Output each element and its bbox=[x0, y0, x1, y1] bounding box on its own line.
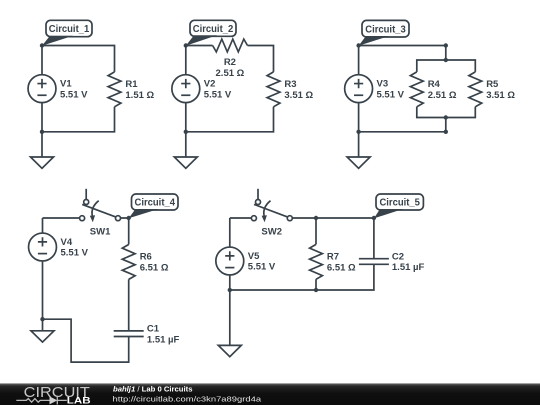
svg-text:C2: C2 bbox=[392, 251, 404, 262]
svg-text:Circuit_4: Circuit_4 bbox=[135, 198, 176, 209]
svg-text:V1: V1 bbox=[60, 79, 72, 90]
svg-text:http://circuitlab.com/c3kn7a89: http://circuitlab.com/c3kn7a89grd4a bbox=[113, 394, 262, 403]
svg-text:R1: R1 bbox=[125, 79, 138, 90]
svg-text:5.51 V: 5.51 V bbox=[377, 89, 405, 100]
svg-text:C1: C1 bbox=[147, 324, 160, 335]
svg-text:5.51 V: 5.51 V bbox=[60, 89, 88, 100]
svg-text:6.51 Ω: 6.51 Ω bbox=[140, 263, 169, 274]
svg-text:5.51 V: 5.51 V bbox=[204, 89, 232, 100]
svg-text:R7: R7 bbox=[327, 252, 339, 263]
svg-text:Circuit_1: Circuit_1 bbox=[49, 24, 90, 35]
svg-text:3.51 Ω: 3.51 Ω bbox=[284, 90, 313, 101]
svg-text:R5: R5 bbox=[486, 79, 499, 90]
svg-text:R4: R4 bbox=[428, 79, 441, 90]
svg-text:SW2: SW2 bbox=[261, 227, 282, 238]
svg-text:V5: V5 bbox=[248, 251, 260, 262]
svg-text:2.51 Ω: 2.51 Ω bbox=[428, 90, 457, 101]
svg-text:SW1: SW1 bbox=[90, 227, 111, 238]
svg-text:V3: V3 bbox=[377, 79, 389, 90]
svg-text:R3: R3 bbox=[284, 79, 296, 90]
svg-text:Circuit_5: Circuit_5 bbox=[379, 198, 420, 209]
svg-text:V4: V4 bbox=[61, 237, 73, 248]
svg-text:R2: R2 bbox=[224, 57, 236, 68]
svg-text:bahlj1 / Lab 0 Circuits: bahlj1 / Lab 0 Circuits bbox=[113, 384, 192, 393]
svg-text:5.51 V: 5.51 V bbox=[248, 262, 276, 273]
svg-text:1.51 Ω: 1.51 Ω bbox=[125, 90, 154, 101]
svg-text:5.51 V: 5.51 V bbox=[61, 248, 89, 259]
svg-text:R6: R6 bbox=[140, 252, 152, 263]
svg-text:2.51 Ω: 2.51 Ω bbox=[216, 68, 245, 79]
svg-text:1.51 µF: 1.51 µF bbox=[392, 262, 425, 273]
svg-text:1.51 µF: 1.51 µF bbox=[147, 334, 180, 345]
svg-text:6.51 Ω: 6.51 Ω bbox=[327, 262, 356, 273]
svg-text:Circuit_2: Circuit_2 bbox=[193, 24, 234, 35]
svg-text:3.51 Ω: 3.51 Ω bbox=[486, 90, 515, 101]
svg-text:Circuit_3: Circuit_3 bbox=[365, 24, 406, 35]
svg-text:LAB: LAB bbox=[67, 396, 91, 405]
svg-text:V2: V2 bbox=[204, 79, 216, 90]
